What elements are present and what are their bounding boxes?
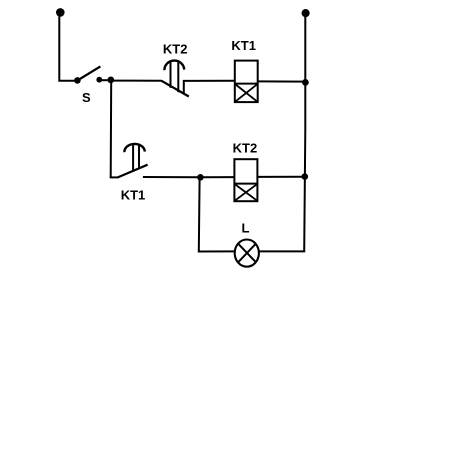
wire KT1 contact to junction bbox=[143, 176, 200, 178]
relay coil KT1 divider bbox=[234, 83, 259, 85]
node junction right bus row2 bbox=[302, 173, 309, 180]
relay coil KT1 box bbox=[235, 61, 258, 103]
contact KT2 delay arc bbox=[164, 61, 184, 71]
svg-text:KT1: KT1 bbox=[121, 187, 146, 202]
contact KT1 delay line left bbox=[132, 144, 134, 172]
wire junction to KT2 coil bbox=[200, 176, 234, 178]
lamp L circle bbox=[235, 240, 259, 267]
node junction after switch bbox=[107, 77, 114, 84]
svg-text:KT1: KT1 bbox=[231, 38, 256, 53]
contact KT2 blade bbox=[161, 81, 189, 97]
relay coil KT1 cross bbox=[235, 84, 258, 102]
contact KT1 left stub bbox=[110, 176, 118, 178]
contact KT1 delay line right bbox=[138, 144, 140, 170]
switch S blade bbox=[78, 66, 100, 80]
switch S fixed contact dot bbox=[96, 77, 102, 83]
contact KT2 delay line left bbox=[170, 60, 172, 88]
contact KT1 delay arc bbox=[124, 144, 144, 152]
node junction right bus row1 bbox=[302, 79, 309, 86]
svg-text:KT2: KT2 bbox=[233, 140, 258, 155]
wire right bus vertical bbox=[304, 15, 305, 252]
wire lamp to right bus bbox=[259, 250, 305, 252]
terminal dot top-right bbox=[302, 9, 310, 17]
svg-text:S: S bbox=[82, 90, 91, 105]
wire fixed contact to junction bbox=[99, 79, 111, 81]
wire left vertical drop bbox=[59, 14, 74, 81]
relay coil KT2 divider bbox=[234, 183, 259, 185]
svg-text:L: L bbox=[242, 221, 250, 236]
wire KT2 coil to right bus bbox=[258, 176, 305, 178]
switch S pivot dot bbox=[74, 77, 81, 84]
wire branch vertical to KT1 contact bbox=[110, 81, 113, 178]
wire KT1 coil to right bus bbox=[258, 80, 305, 82]
node junction lamp branch bbox=[197, 174, 204, 181]
wire lamp branch vertical bbox=[199, 179, 235, 252]
relay coil KT2 box bbox=[234, 159, 257, 201]
contact KT2 delay line right bbox=[177, 60, 179, 92]
wire junction to KT2 contact bbox=[111, 80, 162, 82]
svg-text:KT2: KT2 bbox=[163, 41, 188, 56]
terminal dot top-left bbox=[56, 8, 65, 17]
contact KT1 blade bbox=[117, 165, 147, 178]
relay coil KT2 cross bbox=[235, 184, 258, 201]
contact KT2 fixed terminal drop bbox=[184, 81, 235, 94]
lamp L cross bbox=[238, 244, 256, 263]
